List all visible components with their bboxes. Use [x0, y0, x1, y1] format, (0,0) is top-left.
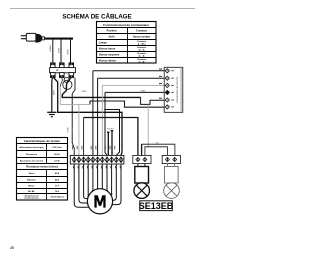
svg-text:Contacts: Contacts — [136, 30, 147, 33]
svg-text:Lampe: Lampe — [99, 42, 108, 45]
svg-text:NOIR: NOIR — [68, 127, 70, 133]
strip diamonds — [72, 157, 123, 163]
svg-text:GRIS: GRIS — [81, 91, 87, 93]
svg-text:Résistance moteur (ohms): Résistance moteur (ohms) — [26, 166, 58, 169]
svg-text:Connecteur de la hotte: Connecteur de la hotte — [175, 76, 179, 103]
cord wire green drop — [70, 39, 72, 63]
motor M1 — [87, 189, 112, 214]
wire black run upper — [62, 78, 140, 98]
svg-text:Alimentation électrique: Alimentation électrique — [19, 146, 44, 149]
motor data table — [17, 138, 68, 201]
svg-text:Aucun contact: Aucun contact — [133, 36, 151, 39]
svg-text:NOIR: NOIR — [58, 47, 60, 53]
svg-text:Arrêt: Arrêt — [109, 36, 115, 39]
strip diamond pins — [74, 158, 121, 163]
power cord — [44, 38, 73, 40]
bus vertical 2 — [97, 78, 99, 155]
branch to strip t10 — [105, 110, 120, 156]
svg-text:SCHÉMA DE CÂBLAGE: SCHÉMA DE CÂBLAGE — [62, 12, 131, 20]
cord wire white drop — [52, 39, 54, 63]
svg-text:Position: Position — [107, 30, 117, 33]
switch-operation table — [97, 22, 157, 64]
crimp marks on terminals — [51, 63, 74, 77]
violet jumper a — [107, 132, 109, 155]
right lamp connector — [162, 155, 180, 163]
svg-text:fonctionnement: fonctionnement — [24, 197, 39, 200]
bus vertical 3 gray — [101, 85, 103, 155]
svg-text:(1 - 3): (1 - 3) — [139, 56, 145, 58]
wire gray run — [60, 78, 62, 87]
wire from block right to strip t1 — [72, 78, 75, 156]
svg-text:(2 - 3): (2 - 3) — [139, 50, 145, 52]
svg-text:(L - BL): (L - BL) — [138, 44, 146, 46]
svg-text:SE13EB: SE13EB — [139, 201, 174, 211]
svg-text:VIOLET: VIOLET — [107, 128, 115, 130]
gray lamp vertical — [147, 104, 149, 146]
svg-text:Absorption du courant: Absorption du courant — [20, 159, 44, 162]
power terminal block — [50, 63, 76, 78]
svg-text:60 Hz: 60 Hz — [54, 154, 61, 156]
model label SE13EB — [140, 201, 173, 211]
lamp jumper 2 — [145, 147, 168, 156]
hood connector pin dots and labels — [167, 70, 168, 107]
svg-text:Bleue: Bleue — [29, 185, 36, 187]
svg-text:0,9 A: 0,9 A — [54, 159, 60, 162]
svg-text:20: 20 — [10, 246, 14, 250]
motor wire nubs — [87, 188, 113, 201]
svg-text:Vitesse moyenne: Vitesse moyenne — [99, 54, 120, 57]
wire to pin 2 — [98, 77, 165, 79]
strip labels above — [72, 146, 115, 150]
strip wires below to motor — [74, 164, 121, 207]
svg-text:Caractéristiques du moteur: Caractéristiques du moteur — [24, 139, 61, 143]
junction dot on right corner wire — [121, 144, 122, 145]
cord wire black drop — [60, 39, 62, 63]
wire continuation to hood connector pin 6 — [90, 101, 164, 107]
wire black run lower — [54, 78, 122, 156]
lamp feed run — [83, 118, 85, 156]
svg-text:75,2 F (25 C): 75,2 F (25 C) — [51, 197, 64, 199]
ground — [47, 112, 56, 116]
gray tee down to strip t2 — [78, 104, 80, 155]
motor terminal strip — [70, 155, 124, 164]
svg-text:Vitesse élevée: Vitesse élevée — [99, 59, 117, 62]
hood connector diamonds — [165, 69, 169, 109]
svg-text:VERT: VERT — [67, 49, 69, 55]
power plug — [21, 33, 45, 42]
violet jumper b — [111, 131, 113, 156]
short bold lamp wire — [141, 144, 143, 155]
svg-text:BLANC: BLANC — [49, 44, 52, 51]
bus vertical 4 — [105, 92, 107, 155]
svg-text:BL-BL: BL-BL — [28, 191, 35, 193]
right lamp socket — [166, 164, 168, 167]
wire end labels at connector — [159, 69, 162, 99]
left lamp connector — [133, 155, 151, 163]
lamp L1 — [134, 183, 150, 199]
svg-text:Fonctionnement du commutateur: Fonctionnement du commutateur — [103, 23, 150, 27]
lamp L2 — [164, 183, 180, 199]
svg-text:VERT: VERT — [53, 89, 55, 95]
svg-text:Fréquence: Fréquence — [26, 154, 38, 156]
cable grommet — [63, 80, 72, 89]
svg-text:(1 - 4): (1 - 4) — [139, 61, 145, 64]
svg-text:GRIS: GRIS — [141, 91, 147, 93]
bus vertical 1 — [92, 71, 94, 156]
motor data table text — [19, 139, 63, 200]
svg-text:Vitesse basse: Vitesse basse — [99, 48, 116, 51]
wire to pin 1 — [93, 70, 164, 72]
wire to pin 4 — [105, 91, 164, 93]
hood connector — [164, 67, 183, 112]
switch-operation table text — [99, 23, 151, 63]
lamp jumper 1 — [142, 144, 175, 155]
wire gray to pin 3 — [102, 84, 164, 86]
svg-text:BLANC: BLANC — [71, 126, 74, 133]
svg-text:Noire: Noire — [29, 173, 35, 175]
wire green to ground — [51, 78, 54, 112]
top page rule — [10, 8, 195, 10]
svg-text:Blanche: Blanche — [27, 179, 36, 181]
left lamp socket — [137, 164, 139, 167]
svg-text:120 Volts: 120 Volts — [52, 146, 62, 149]
wire tail to hood connector pin 5 — [141, 97, 165, 104]
strip labels below — [73, 166, 121, 168]
